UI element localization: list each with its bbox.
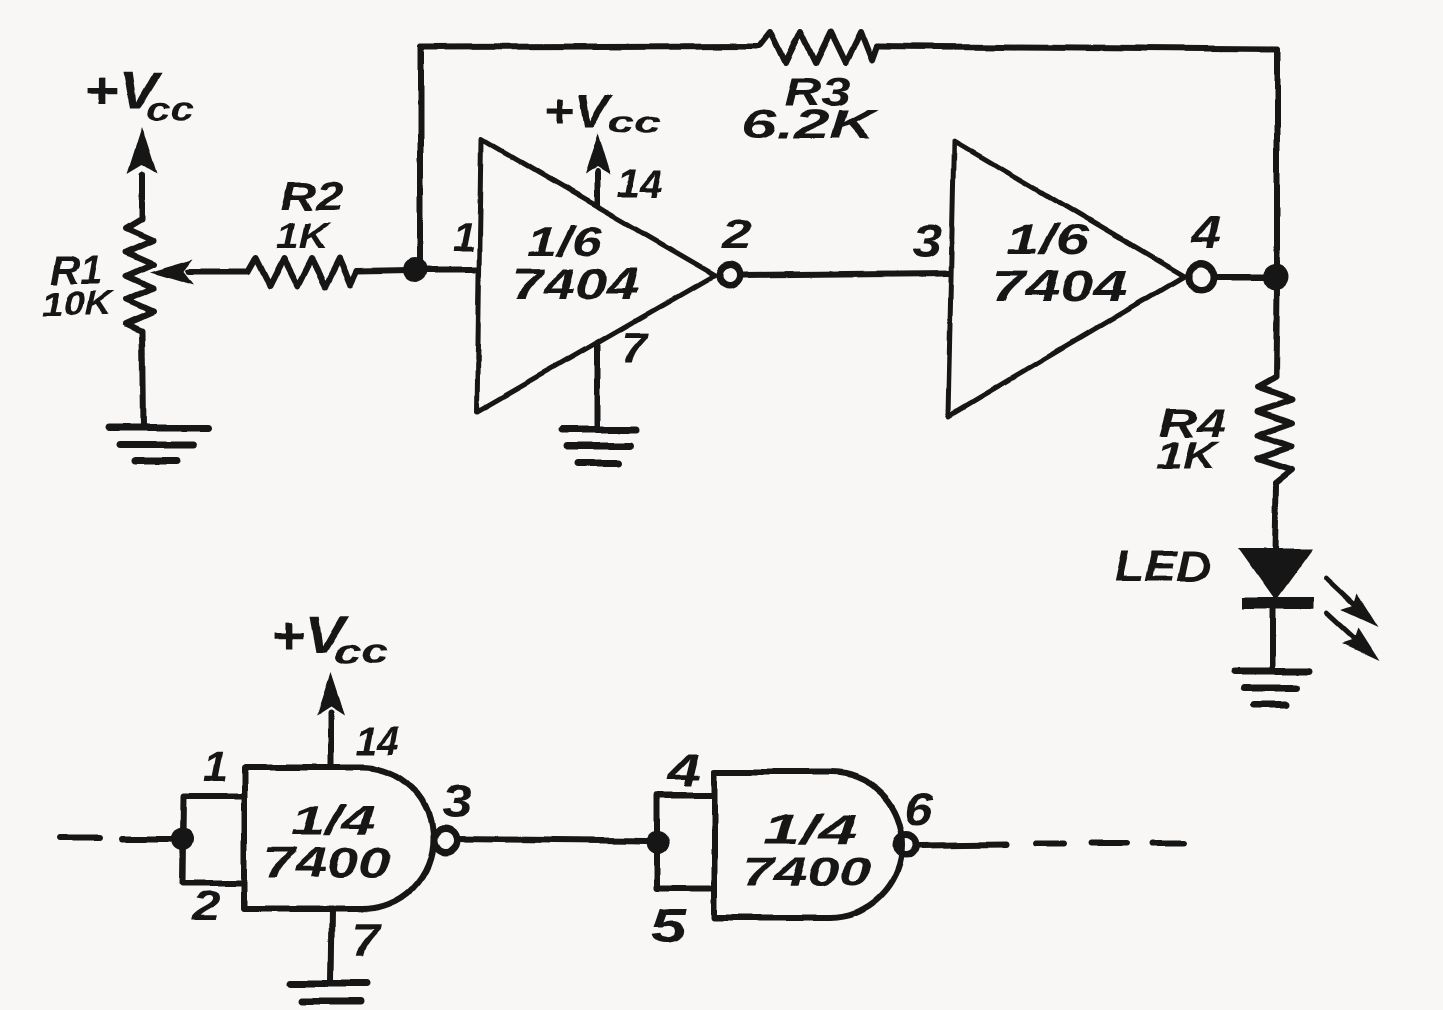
svg-text:1K: 1K (276, 215, 331, 256)
label R1 10K (42, 249, 115, 323)
svg-text:6.2K: 6.2K (741, 103, 880, 147)
svg-text:4: 4 (667, 744, 701, 796)
svg-text:1: 1 (452, 214, 475, 261)
svg-text:7404: 7404 (991, 262, 1128, 311)
wire U1 output to U2 input (744, 273, 950, 275)
LED cathode bar (1242, 597, 1313, 609)
wire R4 to LED anode (1275, 483, 1276, 552)
wire dash 2 (output) (1091, 840, 1126, 846)
ground (below R1) (108, 428, 208, 461)
label G2 1/4 7400 (743, 805, 871, 895)
U1 output bubble (720, 265, 741, 286)
wire dash (input left) (60, 835, 99, 841)
G1 pin 7 ground stem (331, 909, 332, 981)
wire G1 output to G2 input node (456, 839, 648, 841)
potentiometer R1 body (126, 219, 153, 331)
ground (LED) (1234, 671, 1309, 705)
G2 input junction dot (647, 831, 670, 854)
G1 output bubble (434, 829, 457, 852)
wire node A up to feedback rail (417, 47, 423, 262)
svg-text:2: 2 (721, 211, 752, 258)
svg-text:14: 14 (617, 162, 663, 206)
LED light arrow upper (1326, 578, 1378, 627)
wire R1 bottom to ground (142, 331, 143, 428)
svg-text:1/6: 1/6 (528, 217, 604, 264)
wire node A to U1 input (420, 267, 478, 273)
svg-text:7404: 7404 (511, 260, 638, 309)
svg-text:7400: 7400 (263, 839, 391, 886)
LED light arrow lower (1326, 613, 1379, 661)
svg-text:7: 7 (621, 324, 650, 373)
svg-text:3: 3 (912, 215, 942, 267)
svg-text:5: 5 (651, 900, 688, 953)
svg-text:1/6: 1/6 (1007, 216, 1090, 263)
svg-text:1/4: 1/4 (292, 797, 375, 844)
potentiometer R1 wiper arrow (149, 259, 248, 285)
power +Vcc arrow (G1 pin 14) (317, 672, 345, 767)
G2 output bubble (897, 835, 918, 856)
wire R2 to node A (357, 270, 410, 271)
svg-text:10K: 10K (42, 285, 115, 323)
wire dash 1 (output) (1035, 841, 1064, 847)
U2 output bubble (1188, 264, 1214, 290)
node B junction dot (1263, 264, 1289, 290)
resistor R3 body (760, 32, 877, 63)
svg-text:1/4: 1/4 (763, 805, 857, 852)
wire LED cathode to ground (1270, 609, 1276, 671)
label R4 1K (1155, 402, 1226, 477)
svg-text:R2: R2 (280, 175, 344, 219)
svg-text:+V: +V (544, 85, 614, 137)
svg-text:cc: cc (146, 90, 194, 128)
wire G2 output (921, 844, 1006, 845)
G2 input tie bracket (657, 795, 714, 889)
NAND gate G1 1/4 7400 (244, 767, 433, 909)
svg-text:7400: 7400 (743, 848, 871, 895)
wire U2 output to node B (1216, 274, 1266, 280)
G1 input junction dot (172, 828, 194, 850)
wire to G1 input node (122, 836, 174, 842)
svg-text:3: 3 (442, 775, 472, 827)
G1 input tie bracket (183, 796, 244, 883)
wire feedback rail top right segment (877, 46, 1277, 49)
label U1 1/6 7404 (511, 217, 638, 309)
resistor R2 body (248, 258, 357, 286)
wire node B down to R4 (1276, 288, 1277, 377)
inverter U2 1/6 7404 (948, 140, 1184, 416)
label R3 6.2K (741, 71, 880, 147)
svg-text:1K: 1K (1155, 435, 1220, 477)
svg-text:cc: cc (333, 634, 389, 672)
power +Vcc label (G1) (271, 607, 389, 672)
power +Vcc arrow (U1 pin 14) (584, 133, 610, 205)
svg-text:cc: cc (608, 107, 660, 140)
power +Vcc label (U1) (544, 85, 660, 140)
inverter U1 1/6 7404 (477, 139, 715, 412)
ground (U1 pin 7) (561, 430, 636, 463)
wire feedback rail top left segment (420, 46, 760, 47)
wire right rail down to node B (1274, 49, 1280, 266)
node A junction dot (403, 258, 427, 282)
power +Vcc label (left) (85, 62, 194, 128)
svg-text:LED: LED (1114, 542, 1210, 591)
svg-text:6: 6 (905, 783, 933, 835)
NAND gate G2 1/4 7400 (714, 772, 903, 918)
svg-text:7: 7 (351, 914, 382, 966)
label G1 1/4 7400 (263, 797, 391, 886)
label U2 1/6 7404 (991, 216, 1128, 311)
U1 pin 7 ground stem (594, 344, 600, 430)
svg-text:14: 14 (356, 719, 399, 763)
label R2 1K (276, 175, 344, 256)
wire dash 3 (output) (1151, 840, 1184, 846)
power +Vcc arrow (left) (127, 127, 157, 219)
svg-text:1: 1 (204, 743, 227, 790)
resistor R4 body (1258, 377, 1292, 483)
LED anode triangle (1238, 548, 1313, 600)
ground (G1 pin 7) (290, 983, 368, 1001)
svg-text:4: 4 (1191, 207, 1222, 259)
svg-text:2: 2 (191, 882, 221, 929)
